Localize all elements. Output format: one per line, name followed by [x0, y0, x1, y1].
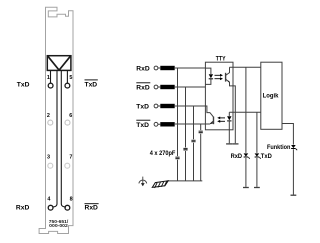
svg-text:TxD: TxD: [136, 104, 149, 111]
opto U2 phototransistor: [210, 113, 214, 125]
LED Funktion indicator: [291, 145, 297, 150]
wire /RxD row to TTY: [158, 86, 206, 88]
svg-text:Funktion: Funktion: [267, 144, 291, 151]
svg-text:7: 7: [69, 155, 72, 161]
node TxD terminal circle: [154, 104, 158, 108]
svg-text:RxD: RxD: [136, 66, 150, 73]
wire U1 collector to Logik: [230, 66, 261, 68]
connector block RxD: [160, 66, 174, 70]
opto U1 LED vertical wire: [205, 68, 211, 84]
svg-text:5: 5: [69, 75, 72, 81]
ground bar Funktion LED: [291, 194, 297, 196]
wire box to terminal 8: [61, 70, 66, 207]
wire /TxD row to opto2 emitter: [158, 123, 210, 125]
node /TxD terminal circle: [154, 122, 158, 126]
terminal 1: [48, 83, 53, 88]
svg-text:4 x 270pF: 4 x 270pF: [150, 150, 176, 157]
wire TxD LED drop: [256, 112, 258, 187]
label /RxD (module right): [85, 204, 99, 212]
svg-text:4: 4: [47, 196, 50, 202]
ground bar under U2 LED: [226, 143, 232, 145]
terminal 6 (unused): [65, 120, 70, 125]
svg-text:8: 8: [70, 196, 73, 202]
capacitor C1 plates: [175, 157, 179, 158]
opto U2 LED: [228, 112, 230, 116]
LED RxD indicator: [244, 153, 250, 158]
capacitor C4 plates: [199, 131, 203, 132]
ground bar RxD LED: [243, 187, 249, 189]
module body outline 750-651: [39, 7, 73, 233]
label /RxD row2: [136, 83, 150, 92]
ground bar TxD LED: [254, 187, 260, 189]
opto U1 LED symbol: [209, 74, 213, 78]
capacitor C4 drop wire: [200, 124, 202, 181]
wire RxD row to TTY: [158, 67, 206, 69]
ground bar under emitter: [232, 143, 238, 145]
Logik block box: [261, 62, 282, 129]
connector block /RxD: [160, 85, 174, 89]
wire stub box to terminal 1: [50, 70, 52, 83]
connector block /TxD: [160, 122, 174, 126]
svg-text:3: 3: [47, 155, 50, 161]
terminal 3 (unused): [48, 163, 53, 168]
svg-text:TxD: TxD: [261, 153, 272, 160]
connector block TxD: [160, 104, 174, 108]
LED TxD indicator: [255, 153, 261, 158]
light arrows U2 (pointing left): [217, 117, 225, 123]
svg-text:1: 1: [47, 75, 50, 81]
svg-text:TTY: TTY: [216, 56, 226, 63]
svg-text:RxD: RxD: [16, 205, 30, 212]
capacitor C2 drop wire: [185, 87, 187, 181]
light arrows U1: [215, 74, 224, 80]
capacitor C3 plates: [191, 140, 195, 141]
wire Funktion LED from Logik: [282, 124, 293, 195]
svg-text:Logik: Logik: [263, 93, 279, 100]
wire stub box to terminal 5: [66, 70, 68, 83]
svg-text:000-002: 000-002: [49, 223, 68, 228]
earth wedge symbol (hatched): [152, 181, 168, 188]
svg-text:TxD: TxD: [136, 122, 149, 129]
svg-text:TxD: TxD: [85, 82, 98, 89]
wire U2 LED anode to Logik: [229, 111, 260, 113]
label /TxD (module right): [85, 80, 98, 89]
terminal 5: [65, 83, 70, 88]
opto U1 phototransistor: [226, 67, 236, 143]
terminal 8: [65, 205, 70, 210]
svg-text:RxD: RxD: [136, 85, 150, 92]
capacitor C1 drop wire: [177, 68, 179, 181]
terminal 4: [48, 205, 53, 210]
capacitor C3 drop wire: [193, 106, 195, 181]
capacitor C2 plates: [183, 149, 187, 150]
ground bus for capacitors: [167, 180, 202, 182]
svg-text:RxD: RxD: [231, 153, 243, 160]
node RxD terminal circle: [154, 66, 158, 70]
svg-text:RxD: RxD: [85, 205, 99, 212]
terminal 2 (unused): [48, 120, 53, 125]
wire TxD row to opto2 collector: [158, 106, 210, 113]
label 750-651/000-002: [49, 219, 69, 228]
wire RxD LED drop: [245, 67, 247, 187]
label /TxD row4: [136, 120, 150, 129]
wire box to terminal 4: [52, 70, 57, 207]
node /RxD terminal circle: [154, 85, 158, 89]
functional earth symbol (circle arc): [139, 177, 147, 187]
data contacts box with X: [47, 56, 71, 71]
svg-text:6: 6: [69, 113, 72, 119]
svg-text:2: 2: [47, 113, 50, 119]
svg-text:TxD: TxD: [17, 82, 30, 89]
terminal 7 (unused): [65, 163, 70, 168]
TTY block box: [205, 62, 233, 130]
